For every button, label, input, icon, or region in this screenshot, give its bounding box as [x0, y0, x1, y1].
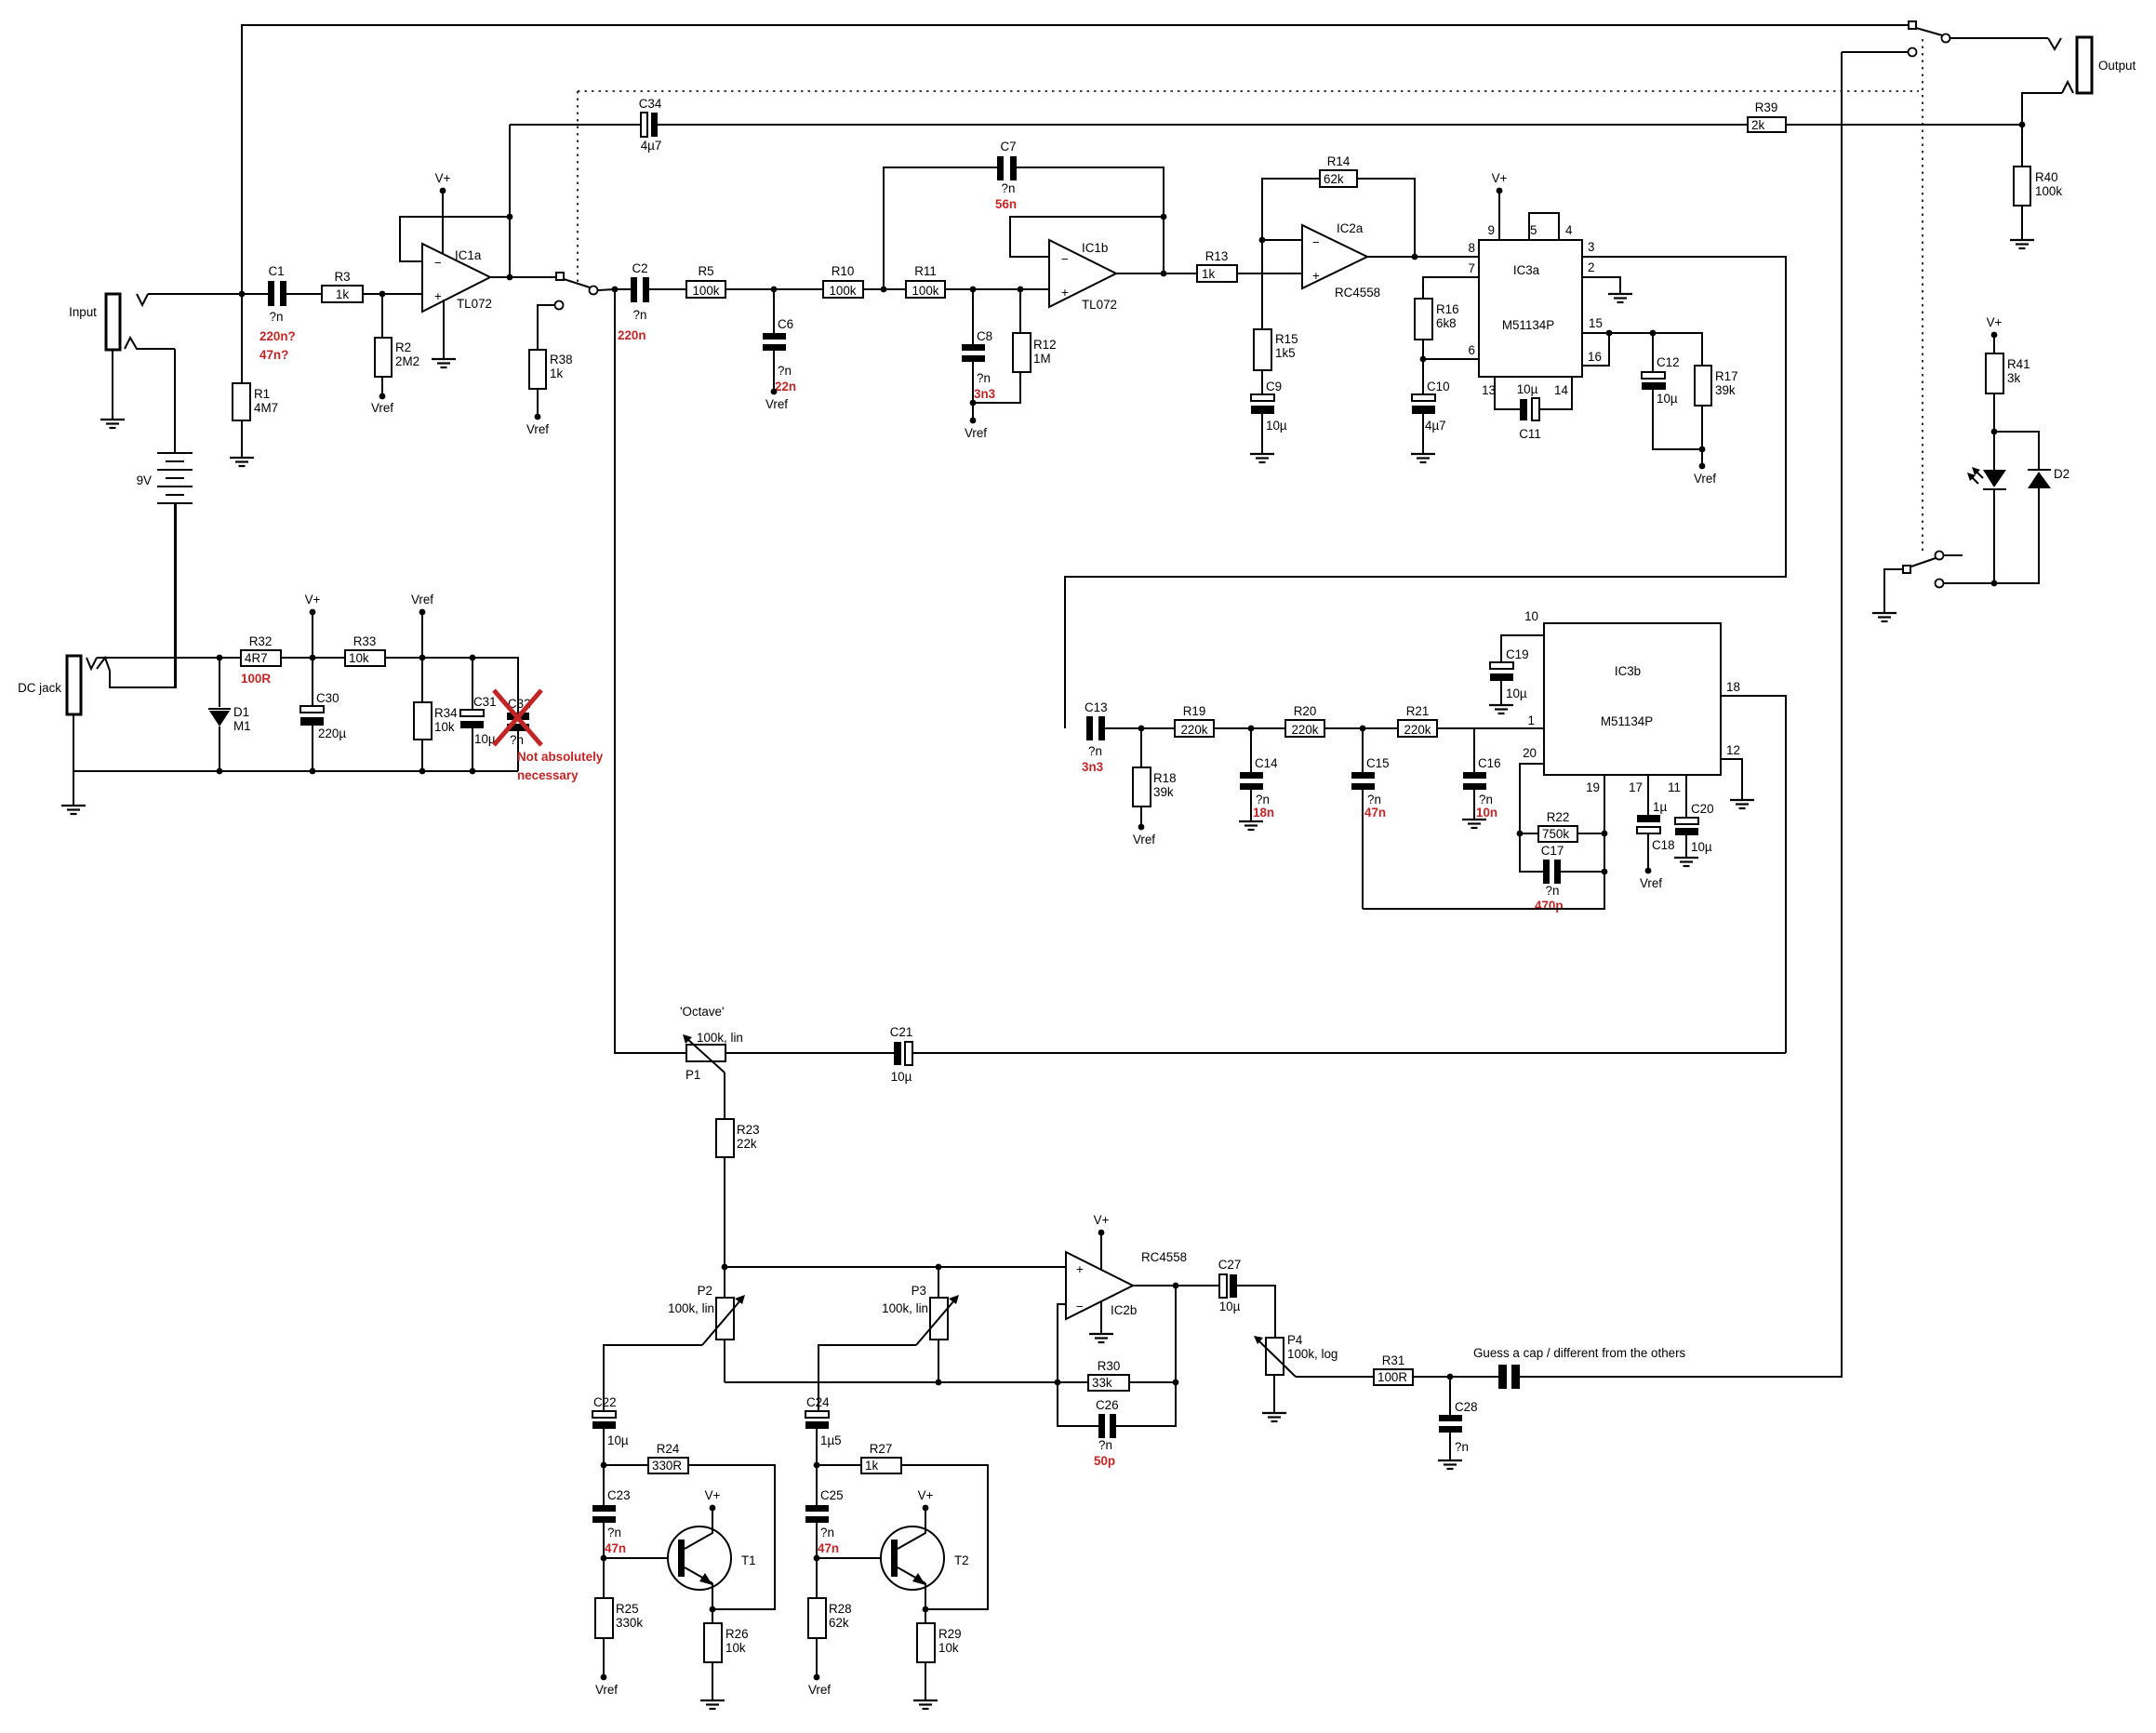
IC IC3b M51134P: [1523, 609, 1740, 794]
capacitor C24: [805, 1395, 842, 1465]
svg-text:R34: R34: [434, 706, 458, 720]
svg-text:R20: R20: [1294, 704, 1317, 718]
svg-text:7: 7: [1469, 261, 1475, 275]
svg-text:C19: C19: [1506, 647, 1529, 661]
svg-text:C6: C6: [778, 317, 793, 331]
node: T2 emitter junction: [923, 1606, 929, 1613]
potentiometer P1 'Octave': [680, 1005, 894, 1119]
resistor R23: [716, 1119, 760, 1267]
svg-text:1k: 1k: [1202, 267, 1215, 281]
svg-text:?n: ?n: [1098, 1438, 1112, 1452]
diode D1: [208, 658, 251, 771]
svg-text:R33: R33: [353, 634, 377, 648]
wire: +9V rail from DC jack: [97, 657, 241, 659]
svg-text:220k: 220k: [1180, 723, 1207, 737]
capacitor C2: [615, 261, 649, 342]
capacitor C11 (pins 13-14): [1495, 377, 1572, 441]
ground (LED switch): [1872, 613, 1896, 621]
svg-text:Guess a cap / different from t: Guess a cap / different from the others: [1473, 1346, 1686, 1360]
svg-text:4: 4: [1565, 223, 1573, 237]
svg-text:C9: C9: [1266, 380, 1282, 393]
LED indicator: [1967, 432, 2006, 583]
svg-text:R11: R11: [914, 264, 937, 278]
capacitor C17: [1520, 833, 1607, 913]
svg-text:Vref: Vref: [965, 426, 987, 440]
node: C2 input junction (to octave pot): [612, 287, 619, 293]
svg-text:39k: 39k: [1153, 785, 1174, 799]
svg-text:18: 18: [1726, 680, 1740, 694]
wire: IC3a pin 15: [1582, 333, 1702, 366]
svg-text:R29: R29: [938, 1627, 962, 1641]
node: T1 emitter junction: [710, 1606, 716, 1613]
capacitor C26 (feedback): [1094, 1286, 1176, 1468]
resistor R2: [371, 294, 419, 415]
svg-text:−: −: [1061, 252, 1069, 266]
capacitor C1: [260, 264, 296, 362]
svg-text:TL072: TL072: [1082, 298, 1117, 312]
svg-text:100k, lin: 100k, lin: [882, 1301, 928, 1315]
svg-text:R16: R16: [1436, 302, 1459, 316]
svg-text:100k: 100k: [912, 284, 938, 298]
svg-text:22k: 22k: [737, 1137, 757, 1151]
svg-text:10µ: 10µ: [607, 1433, 629, 1447]
resistor R5: [649, 264, 823, 298]
jack DC jack: [18, 503, 176, 714]
node: V+ rail node: [310, 655, 316, 661]
svg-text:56n: 56n: [995, 197, 1017, 211]
svg-text:C17: C17: [1541, 844, 1564, 858]
svg-text:R5: R5: [698, 264, 713, 278]
wire: mixer + input line: [725, 1266, 1066, 1268]
svg-text:Vref: Vref: [526, 422, 549, 436]
ground (C16): [1462, 820, 1486, 828]
V+ (LED branch): [1987, 315, 2003, 353]
resistor R21: [1398, 704, 1544, 737]
svg-text:R15: R15: [1275, 332, 1298, 346]
wire: IC2b output: [1133, 1285, 1219, 1286]
svg-text:?n: ?n: [1002, 181, 1016, 195]
ground (R40): [2010, 240, 2034, 248]
ground (R29): [913, 1700, 938, 1709]
ground (R1): [230, 458, 254, 466]
transistor T2: [817, 1511, 969, 1609]
svg-text:15: 15: [1589, 316, 1603, 330]
svg-text:P4: P4: [1287, 1333, 1303, 1347]
svg-text:V+: V+: [305, 593, 321, 607]
svg-text:R18: R18: [1153, 771, 1177, 785]
svg-text:9V: 9V: [137, 473, 152, 487]
node: LED/D2 top junction: [1991, 429, 1998, 435]
jack Output: [2048, 37, 2136, 93]
svg-text:2M2: 2M2: [395, 354, 419, 368]
svg-text:3k: 3k: [2007, 371, 2020, 385]
ground (C9): [1250, 454, 1274, 462]
svg-text:R32: R32: [249, 634, 273, 648]
svg-text:3n3: 3n3: [974, 387, 995, 401]
svg-text:?n: ?n: [820, 1526, 834, 1540]
svg-text:C16: C16: [1478, 756, 1501, 770]
resistor R1: [233, 294, 278, 458]
svg-text:220n?: 220n?: [260, 329, 296, 343]
svg-text:C26: C26: [1096, 1398, 1119, 1412]
svg-text:100R: 100R: [241, 672, 271, 686]
svg-text:?n: ?n: [977, 371, 991, 385]
svg-text:+: +: [434, 289, 442, 303]
node: T1 base junction: [601, 1555, 607, 1562]
svg-text:R39: R39: [1755, 100, 1778, 114]
svg-text:+: +: [1076, 1262, 1084, 1276]
svg-text:10k: 10k: [725, 1641, 746, 1655]
svg-text:?n: ?n: [1088, 744, 1102, 758]
svg-text:Vref: Vref: [595, 1683, 618, 1697]
switch: output select pole: [1842, 21, 2048, 57]
resistor R11: [906, 264, 1049, 298]
node: R12 junction: [1018, 287, 1024, 293]
svg-text:4M7: 4M7: [254, 401, 278, 415]
svg-text:C7: C7: [1000, 140, 1016, 153]
resistor R19: [1175, 704, 1285, 737]
svg-text:1k5: 1k5: [1275, 346, 1296, 360]
svg-text:C2: C2: [632, 261, 647, 275]
svg-text:C8: C8: [977, 329, 992, 343]
svg-text:C18: C18: [1652, 838, 1675, 852]
capacitor C31: [460, 658, 497, 771]
capacitor C20 (pin 11): [1675, 775, 1714, 858]
svg-text:C20: C20: [1691, 802, 1714, 816]
svg-text:?n: ?n: [633, 308, 647, 322]
transistor T1: [604, 1511, 756, 1609]
svg-text:D1: D1: [233, 705, 249, 719]
svg-text:+: +: [1061, 286, 1069, 300]
svg-text:R27: R27: [870, 1442, 893, 1456]
svg-text:4R7: 4R7: [245, 651, 268, 665]
svg-text:IC1a: IC1a: [455, 248, 482, 262]
svg-text:8: 8: [1469, 241, 1475, 255]
svg-text:22n: 22n: [775, 380, 796, 393]
svg-text:R25: R25: [616, 1602, 639, 1616]
IC IC3a M51134P: [1469, 223, 1603, 397]
potentiometer P4: [1254, 1333, 1374, 1413]
svg-text:C12: C12: [1657, 355, 1680, 369]
node: IC1a + input: [379, 291, 386, 298]
svg-text:?n: ?n: [1256, 793, 1270, 807]
svg-text:Vref: Vref: [371, 401, 393, 415]
V+ supply label: [305, 593, 321, 658]
V+ (IC3a pin 9): [1492, 171, 1508, 240]
svg-text:2k: 2k: [1751, 118, 1764, 132]
svg-text:R40: R40: [2035, 170, 2058, 184]
svg-text:10k: 10k: [938, 1641, 959, 1655]
battery 9V: [137, 349, 193, 687]
V+ (IC2b): [1094, 1213, 1110, 1271]
capacitor C19 (pin 10): [1490, 635, 1544, 705]
svg-text:C25: C25: [820, 1488, 844, 1502]
ground (C10): [1411, 454, 1435, 462]
svg-text:C10: C10: [1427, 380, 1450, 393]
wire: IC3a pins 5-4 strap: [1529, 213, 1559, 240]
wire: mixer - input line: [725, 1381, 1088, 1383]
svg-text:C1: C1: [268, 264, 284, 278]
svg-text:1k: 1k: [336, 287, 349, 301]
resistor R30 (feedback): [1088, 1359, 1178, 1391]
svg-text:1µ5: 1µ5: [820, 1433, 842, 1447]
wire: IC3a pin 2 to ground: [1582, 277, 1620, 294]
capacitor C18 (pin 17): [1637, 775, 1675, 890]
svg-text:Vref: Vref: [411, 593, 433, 607]
resistor R25: [595, 1558, 643, 1697]
V+ (IC1a): [435, 171, 451, 254]
svg-text:?n: ?n: [1455, 1440, 1469, 1454]
svg-text:47n: 47n: [605, 1541, 626, 1555]
wire: supply ground rail: [73, 714, 518, 771]
ground (C28): [1438, 1460, 1462, 1469]
svg-text:+: +: [1312, 269, 1320, 283]
capacitor: guess a cap: [1473, 52, 1842, 1389]
svg-text:RC4558: RC4558: [1141, 1250, 1187, 1264]
svg-text:10µ: 10µ: [1517, 382, 1538, 396]
svg-text:Vref: Vref: [1640, 876, 1662, 890]
resistor R3: [322, 270, 363, 302]
ground (C20): [1674, 858, 1698, 866]
resistor R33: [345, 634, 385, 666]
wire: IC3b pin 20: [1520, 764, 1544, 833]
capacitor C34: [510, 97, 1748, 153]
svg-text:V+: V+: [1492, 171, 1508, 185]
svg-text:220µ: 220µ: [318, 727, 346, 740]
svg-text:10n: 10n: [1476, 806, 1497, 820]
svg-text:100k, lin: 100k, lin: [697, 1031, 743, 1045]
capacitor C6: [763, 289, 796, 411]
capacitor C22: [592, 1395, 629, 1465]
svg-text:M51134P: M51134P: [1502, 318, 1554, 332]
svg-text:P2: P2: [698, 1284, 712, 1298]
svg-text:?n: ?n: [1367, 793, 1381, 807]
svg-text:100k, lin: 100k, lin: [668, 1301, 714, 1315]
capacitor C32 (crossed out): [494, 690, 604, 782]
wire: IC3a pin 3 route to second stage: [1065, 257, 1786, 728]
svg-text:R38: R38: [550, 353, 573, 367]
capacitor C21: [890, 1025, 1786, 1084]
svg-text:13: 13: [1482, 383, 1496, 397]
node: C24/R27/C25 junction: [814, 1462, 820, 1469]
svg-text:T2: T2: [954, 1553, 969, 1567]
svg-text:C31: C31: [473, 695, 497, 709]
svg-text:R22: R22: [1547, 810, 1570, 824]
wire: IC3a pin 7 to R16: [1423, 277, 1479, 299]
svg-text:Input: Input: [69, 305, 97, 319]
resistor R22: [1517, 810, 1608, 842]
svg-text:470p: 470p: [1535, 899, 1564, 913]
node: C7 tap junction: [881, 287, 887, 293]
svg-text:V+: V+: [1987, 315, 2003, 329]
svg-text:47n: 47n: [1364, 806, 1386, 820]
svg-text:−: −: [1312, 235, 1320, 249]
resistor R34: [414, 658, 458, 771]
svg-text:C11: C11: [1519, 427, 1541, 441]
svg-text:R2: R2: [395, 340, 411, 354]
wire: output jack sleeve branch: [2022, 93, 2062, 125]
svg-text:C21: C21: [890, 1025, 913, 1039]
svg-text:C27: C27: [1218, 1258, 1242, 1272]
svg-text:Vref: Vref: [808, 1683, 831, 1697]
op-amp IC2b: [1066, 1250, 1187, 1319]
node: C14 junction: [1248, 726, 1255, 732]
svg-text:V+: V+: [1094, 1213, 1110, 1227]
capacitor C16: [1463, 728, 1501, 820]
svg-text:10k: 10k: [349, 651, 369, 665]
svg-text:220k: 220k: [1291, 723, 1318, 737]
ground (IC2b): [1089, 1334, 1113, 1342]
potentiometer P3: [818, 1267, 959, 1411]
ground (supply rail): [61, 806, 86, 814]
svg-text:M51134P: M51134P: [1601, 714, 1653, 728]
wire: octave send vertical: [615, 289, 686, 1053]
svg-text:IC3b: IC3b: [1615, 664, 1641, 678]
wire: IC1b output: [1116, 273, 1197, 274]
svg-text:100k, log: 100k, log: [1287, 1347, 1338, 1361]
svg-text:6: 6: [1469, 343, 1475, 357]
svg-text:3: 3: [1588, 240, 1594, 254]
svg-text:1µ: 1µ: [1653, 800, 1667, 814]
node: C8 junction: [970, 287, 977, 293]
op-amp IC2a: [1302, 221, 1380, 300]
resistor R41: [1986, 353, 2030, 432]
svg-text:V+: V+: [918, 1488, 934, 1502]
resistor R39: [1748, 100, 2022, 132]
svg-text:Not absolutely: Not absolutely: [517, 750, 604, 764]
svg-text:Vref: Vref: [765, 397, 788, 411]
svg-text:C15: C15: [1366, 756, 1390, 770]
wire: IC3b pin 19 to C15: [1363, 775, 1604, 909]
svg-text:R17: R17: [1715, 369, 1738, 383]
capacitor C15: [1351, 728, 1390, 909]
svg-text:10µ: 10µ: [1657, 392, 1678, 406]
capacitor C13: [1082, 700, 1175, 774]
wire: IC2b ground stem: [1100, 1301, 1102, 1334]
ground (P4): [1262, 1413, 1286, 1421]
node: C22/R24/C23 junction: [601, 1462, 607, 1469]
svg-text:R21: R21: [1406, 704, 1430, 718]
wire: IC3b pin 18 route: [1721, 696, 1786, 1053]
svg-text:TL072: TL072: [457, 297, 492, 311]
svg-text:DC jack: DC jack: [18, 681, 61, 695]
node: LED bottom junction: [1991, 580, 1998, 587]
svg-text:1M: 1M: [1033, 352, 1051, 366]
svg-text:Output: Output: [2098, 59, 2136, 73]
svg-text:3n3: 3n3: [1082, 760, 1103, 774]
capacitor C7 (feedback): [884, 140, 1164, 289]
svg-text:C28: C28: [1455, 1400, 1478, 1414]
resistor R20: [1285, 704, 1398, 737]
svg-text:1: 1: [1528, 713, 1535, 727]
resistor R38: [526, 305, 573, 436]
svg-text:47n?: 47n?: [260, 348, 288, 362]
svg-text:47n: 47n: [818, 1541, 839, 1555]
svg-text:C14: C14: [1255, 756, 1278, 770]
ground (IC1a): [432, 359, 456, 367]
svg-text:100R: 100R: [1377, 1370, 1407, 1384]
svg-text:1k: 1k: [550, 367, 563, 380]
svg-text:10µ: 10µ: [1266, 419, 1287, 433]
svg-text:1k: 1k: [865, 1459, 878, 1473]
svg-text:R1: R1: [254, 387, 270, 401]
svg-text:T1: T1: [741, 1553, 756, 1567]
ground (pin 2): [1608, 294, 1632, 302]
resistor R27: [817, 1442, 988, 1609]
svg-text:R19: R19: [1183, 704, 1206, 718]
wire: IC2a output to pin 8: [1367, 256, 1479, 258]
resistor R24: [604, 1442, 775, 1609]
resistor R12: [965, 289, 1057, 440]
node: Vref rail node: [419, 655, 426, 661]
svg-text:Vref: Vref: [1694, 472, 1716, 486]
node: C15 junction: [1360, 726, 1366, 732]
svg-text:C22: C22: [593, 1395, 617, 1409]
resistor R17: [1694, 366, 1738, 486]
svg-text:IC2a: IC2a: [1337, 221, 1364, 235]
op-amp IC1a: [422, 244, 492, 312]
svg-text:14: 14: [1554, 383, 1568, 397]
svg-text:V+: V+: [435, 171, 451, 185]
svg-text:10: 10: [1524, 609, 1538, 623]
svg-text:C30: C30: [316, 691, 339, 705]
wire: IC1a feedback loop: [400, 217, 510, 261]
wire: IC1a output column: [490, 125, 556, 277]
svg-text:10µ: 10µ: [474, 732, 496, 746]
svg-text:RC4558: RC4558: [1335, 286, 1380, 300]
svg-text:19: 19: [1586, 780, 1600, 794]
svg-text:39k: 39k: [1715, 383, 1736, 397]
svg-text:P1: P1: [685, 1068, 700, 1082]
svg-text:?n: ?n: [510, 733, 524, 747]
svg-text:R10: R10: [832, 264, 855, 278]
svg-text:10k: 10k: [434, 720, 455, 734]
svg-text:IC2b: IC2b: [1111, 1303, 1137, 1317]
svg-text:C13: C13: [1085, 700, 1108, 714]
switch: LED ground pole: [1884, 552, 1994, 614]
wire: IC3b pin 12 to ground: [1721, 759, 1742, 800]
svg-text:'Octave': 'Octave': [680, 1005, 725, 1019]
resistor R10: [823, 264, 906, 298]
svg-text:−: −: [434, 256, 442, 270]
svg-text:6k8: 6k8: [1436, 316, 1457, 330]
svg-text:V+: V+: [705, 1488, 721, 1502]
svg-text:IC1b: IC1b: [1082, 241, 1108, 255]
svg-text:?n: ?n: [270, 310, 284, 324]
svg-text:10µ: 10µ: [1691, 840, 1712, 854]
ground (R26): [700, 1700, 725, 1709]
svg-text:R30: R30: [1098, 1359, 1121, 1373]
svg-text:100k: 100k: [692, 284, 719, 298]
capacitor C8: [962, 289, 995, 403]
wire: IC1b feedback loop: [1010, 217, 1164, 257]
capacitor C12: [1642, 333, 1702, 449]
svg-text:10µ: 10µ: [1506, 687, 1527, 700]
svg-text:11: 11: [1668, 780, 1681, 794]
ground (input jack): [100, 420, 125, 428]
resistor R26: [704, 1609, 749, 1700]
svg-text:62k: 62k: [829, 1616, 849, 1630]
node: C31 node: [470, 655, 476, 661]
svg-text:C34: C34: [639, 97, 662, 111]
capacitor C14: [1240, 728, 1278, 821]
svg-text:P3: P3: [912, 1284, 926, 1298]
svg-text:?n: ?n: [607, 1526, 621, 1540]
svg-text:R12: R12: [1033, 338, 1057, 352]
svg-text:20: 20: [1523, 746, 1537, 760]
svg-text:R28: R28: [829, 1602, 852, 1616]
wire: switch linkage (dotted): [578, 90, 1919, 92]
